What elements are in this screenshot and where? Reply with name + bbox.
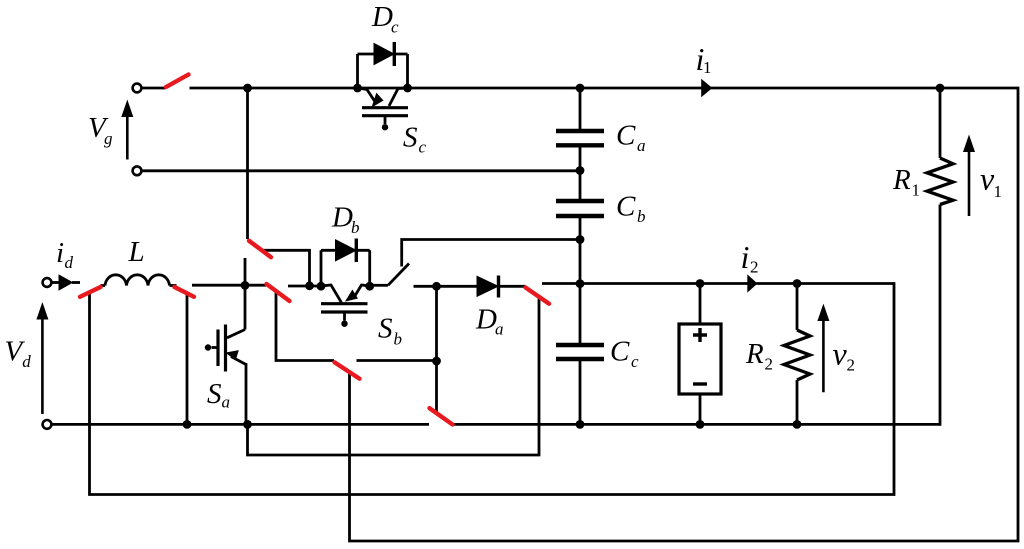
capacitor Cb plates <box>556 201 604 216</box>
node dot Sc right <box>403 84 412 93</box>
node dot bottom rail x=187 <box>183 420 192 429</box>
node dot Sc left <box>353 84 362 93</box>
svg-text:g: g <box>104 129 113 148</box>
node dot battery top <box>696 279 705 288</box>
current arrow i1 <box>701 79 712 98</box>
diode Dc triangle <box>374 44 394 65</box>
wire R2 bottom lead <box>796 380 799 424</box>
wire x=580 column: top rail to Ca <box>579 89 582 131</box>
wire Sb blade stub <box>373 284 389 287</box>
IGBT Sc emitter diagonal <box>358 88 375 101</box>
IGBT Sb emitter arrowhead <box>346 290 357 301</box>
node dot battery bottom <box>696 420 705 429</box>
wire Sb open blade diagonal <box>388 264 409 286</box>
node dot Da anode <box>432 282 441 291</box>
svg-text:a: a <box>495 320 504 339</box>
wire R1 top lead <box>939 89 942 158</box>
wire Da cathode lead to cut <box>500 285 526 288</box>
IGBT Sa gate bar <box>216 330 219 367</box>
svg-text:c: c <box>631 352 639 371</box>
IGBT Sc gate stem and terminal dot <box>384 116 387 124</box>
wire x=580 column: Cc to bottom rail <box>579 360 582 424</box>
wire Sa emitter vertical to bottom rail <box>245 363 248 424</box>
wire inductor right lead <box>170 284 177 287</box>
node dot Ca top <box>576 84 585 93</box>
svg-text:R: R <box>745 338 764 370</box>
IGBT Sc collector diagonal <box>389 88 408 106</box>
inductor L humps <box>105 275 170 286</box>
diode Da cathode bar <box>497 276 500 298</box>
red cut slash after diode Da <box>526 288 550 304</box>
wire Vg+ terminal stub <box>142 87 166 90</box>
wire id terminal stub <box>52 281 60 284</box>
IGBT Sb channel bar <box>321 302 368 305</box>
red cut slash after id arrow <box>80 287 101 297</box>
wire node-245 vertical (stub above node down to Sa collector) <box>244 258 247 330</box>
voltage arrow Vd <box>41 316 44 414</box>
svg-text:C: C <box>616 191 636 223</box>
red cut slash on x=247 drop above Sb <box>249 241 271 257</box>
svg-text:D: D <box>475 304 497 336</box>
IGBT Sc emitter arrowhead <box>372 94 382 107</box>
diode Db triangle <box>336 240 357 261</box>
wire id arrow tail stub <box>72 281 80 284</box>
svg-text:D: D <box>331 202 353 234</box>
svg-text:b: b <box>637 207 646 226</box>
voltage arrow Vg <box>126 112 129 160</box>
capacitor Ca plates <box>556 131 604 145</box>
node dot Sb left <box>317 282 326 291</box>
battery source rectangle <box>679 324 721 394</box>
wire top rail y=88 with right-edge loop down to bottom y=540 and riser x=349.5 <box>190 88 1019 541</box>
red cut slash after inductor L <box>175 287 195 297</box>
wire Vg- rail y=170.5 <box>142 169 580 172</box>
diode Db cathode bar <box>355 239 358 263</box>
wire i2 rail y=283.5 with loop down y=492 back to id cut drop x=90 <box>90 284 895 495</box>
IGBT Sb gate stem and terminal dot <box>343 312 346 321</box>
IGBT Sc channel bar <box>362 106 408 109</box>
node dot R1 top <box>936 84 945 93</box>
node dot i2 rail at x=580 <box>576 279 585 288</box>
wire R2 top lead <box>796 284 799 331</box>
node dot top rail x=247.5 <box>243 84 252 93</box>
terminal Vg- <box>133 166 142 175</box>
svg-text:i: i <box>741 239 750 275</box>
wire resume rail into Sb dots <box>288 285 321 288</box>
red cut slash on y=360.5 run under Sb <box>335 362 360 378</box>
svg-text:a: a <box>637 136 646 155</box>
diode Da triangle <box>477 276 498 296</box>
svg-text:S: S <box>403 122 418 154</box>
IGBT Sb gate bar <box>321 310 368 313</box>
svg-text:c: c <box>419 138 427 157</box>
red cut slash on bottom rail y=423 <box>430 408 453 424</box>
resistor R2 zigzag <box>784 330 810 380</box>
red cut slash at Vg+ switch <box>166 75 189 88</box>
wire x=580 column: Cb to Cc through dots <box>579 214 582 344</box>
node dot Cb bottom junction <box>576 235 585 244</box>
svg-text:d: d <box>22 352 31 371</box>
diode Dc loop verticals and leads <box>358 54 408 88</box>
wire R1 bottom lead down to bottom rail <box>939 205 942 426</box>
IGBT Sb emitter diagonal <box>355 285 370 297</box>
node dot R2 bottom <box>793 420 802 429</box>
wire bottom rail left segment y=423 <box>52 423 430 426</box>
IGBT Sa emitter diagonal <box>231 357 246 365</box>
battery minus sign <box>693 382 707 385</box>
current arrow i2 <box>747 274 757 292</box>
capacitor Cc plates <box>556 345 604 359</box>
svg-text:1: 1 <box>703 58 712 77</box>
wire node-245 rail from inductor cut to node cut <box>192 284 266 287</box>
wire vertical from top rail x=247.5 down to cut <box>246 89 249 239</box>
voltage arrow v2 <box>822 320 825 392</box>
wire battery top lead <box>699 284 702 325</box>
terminal Vg+ <box>133 84 142 93</box>
svg-text:C: C <box>610 336 630 368</box>
svg-text:S: S <box>378 313 393 345</box>
svg-text:D: D <box>371 1 393 33</box>
node dot Sb right <box>365 282 374 291</box>
diode Db loop verticals and leads <box>321 250 370 286</box>
wire drop x=276 from node cut to y=360.5 run <box>276 293 334 361</box>
wire battery bottom lead <box>699 394 702 424</box>
svg-text:2: 2 <box>765 355 774 374</box>
svg-text:R: R <box>892 164 911 196</box>
svg-text:i: i <box>56 237 64 269</box>
svg-text:C: C <box>616 120 636 152</box>
IGBT Sc gate bar <box>362 114 408 117</box>
wire Da anode lead <box>414 285 478 288</box>
svg-text:2: 2 <box>847 356 856 375</box>
voltage arrow v1 <box>968 150 971 216</box>
node dot inductor node x=245 <box>241 281 250 290</box>
svg-text:2: 2 <box>750 258 759 277</box>
svg-text:b: b <box>394 330 403 349</box>
wire y=455 link from node-247 to Da cathode column <box>248 297 540 455</box>
resistor R1 zigzag <box>927 158 953 205</box>
current arrow id <box>59 274 74 291</box>
wire Da anode column x=436.5 <box>435 286 438 412</box>
svg-text:1: 1 <box>994 182 1003 201</box>
IGBT Sb collector diagonal <box>321 285 342 303</box>
svg-text:c: c <box>391 18 399 37</box>
wire inductor-cut drop x=187 <box>186 294 189 424</box>
svg-text:S: S <box>207 378 222 410</box>
node dot Vg- rail at x=580 <box>576 166 585 175</box>
svg-text:1: 1 <box>912 181 921 200</box>
wire bottom rail right segment y=423 <box>453 423 940 426</box>
IGBT Sa channel bar <box>224 325 227 372</box>
terminal Vd- <box>43 420 52 429</box>
red cut slash right of node-245 <box>267 284 290 301</box>
IGBT Sa gate stem and terminal dot <box>212 346 219 349</box>
battery plus sign <box>693 328 707 342</box>
wire Sb collector link up to y=239.5 rail toward x=580 <box>402 240 580 267</box>
svg-text:b: b <box>351 218 360 237</box>
wire inductor left lead <box>101 284 106 287</box>
diode Dc cathode bar <box>393 42 396 66</box>
svg-text:a: a <box>222 393 231 412</box>
node dot Cc bottom <box>576 420 585 429</box>
node dot Da column y=361 <box>432 357 441 366</box>
node dot R2 top <box>793 279 802 288</box>
wire x=580 column: Ca to Cb through Vg- dot <box>579 147 582 199</box>
svg-text:v: v <box>833 336 848 372</box>
node dot Sb left outer <box>305 281 314 290</box>
svg-text:d: d <box>65 253 74 272</box>
terminal Vd+ (id input) <box>43 278 52 287</box>
svg-text:L: L <box>128 236 145 268</box>
IGBT Sa emitter arrowhead <box>226 351 238 360</box>
IGBT Sa collector diagonal <box>227 330 245 338</box>
wire bend y=250 into Sb left terminal <box>261 250 310 284</box>
node dot bottom rail x=247.5 <box>243 420 252 429</box>
wire y=360.5 resume under Sb to Da anode column <box>357 359 437 362</box>
